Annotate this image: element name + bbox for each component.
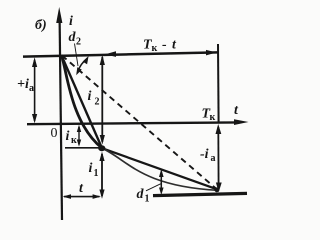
svg-text:i: i bbox=[89, 161, 93, 176]
svg-text:i: i bbox=[69, 14, 73, 29]
svg-text:+i: +i bbox=[17, 77, 29, 92]
svg-text:2: 2 bbox=[76, 37, 81, 48]
svg-text:к: к bbox=[71, 135, 77, 146]
svg-text:a: a bbox=[29, 83, 34, 94]
svg-text:i: i bbox=[66, 129, 70, 144]
svg-text:к: к bbox=[210, 112, 216, 123]
svg-text:-i: -i bbox=[200, 147, 209, 162]
svg-text:-: - bbox=[162, 38, 167, 53]
svg-text:1: 1 bbox=[145, 194, 150, 205]
svg-text:к: к bbox=[152, 43, 158, 54]
svg-text:2: 2 bbox=[95, 97, 100, 108]
svg-text:i: i bbox=[88, 89, 92, 104]
svg-text:a: a bbox=[211, 153, 216, 164]
svg-text:0: 0 bbox=[51, 126, 58, 141]
svg-text:б): б) bbox=[35, 18, 47, 33]
svg-text:d: d bbox=[137, 187, 145, 202]
svg-text:1: 1 bbox=[94, 168, 99, 179]
